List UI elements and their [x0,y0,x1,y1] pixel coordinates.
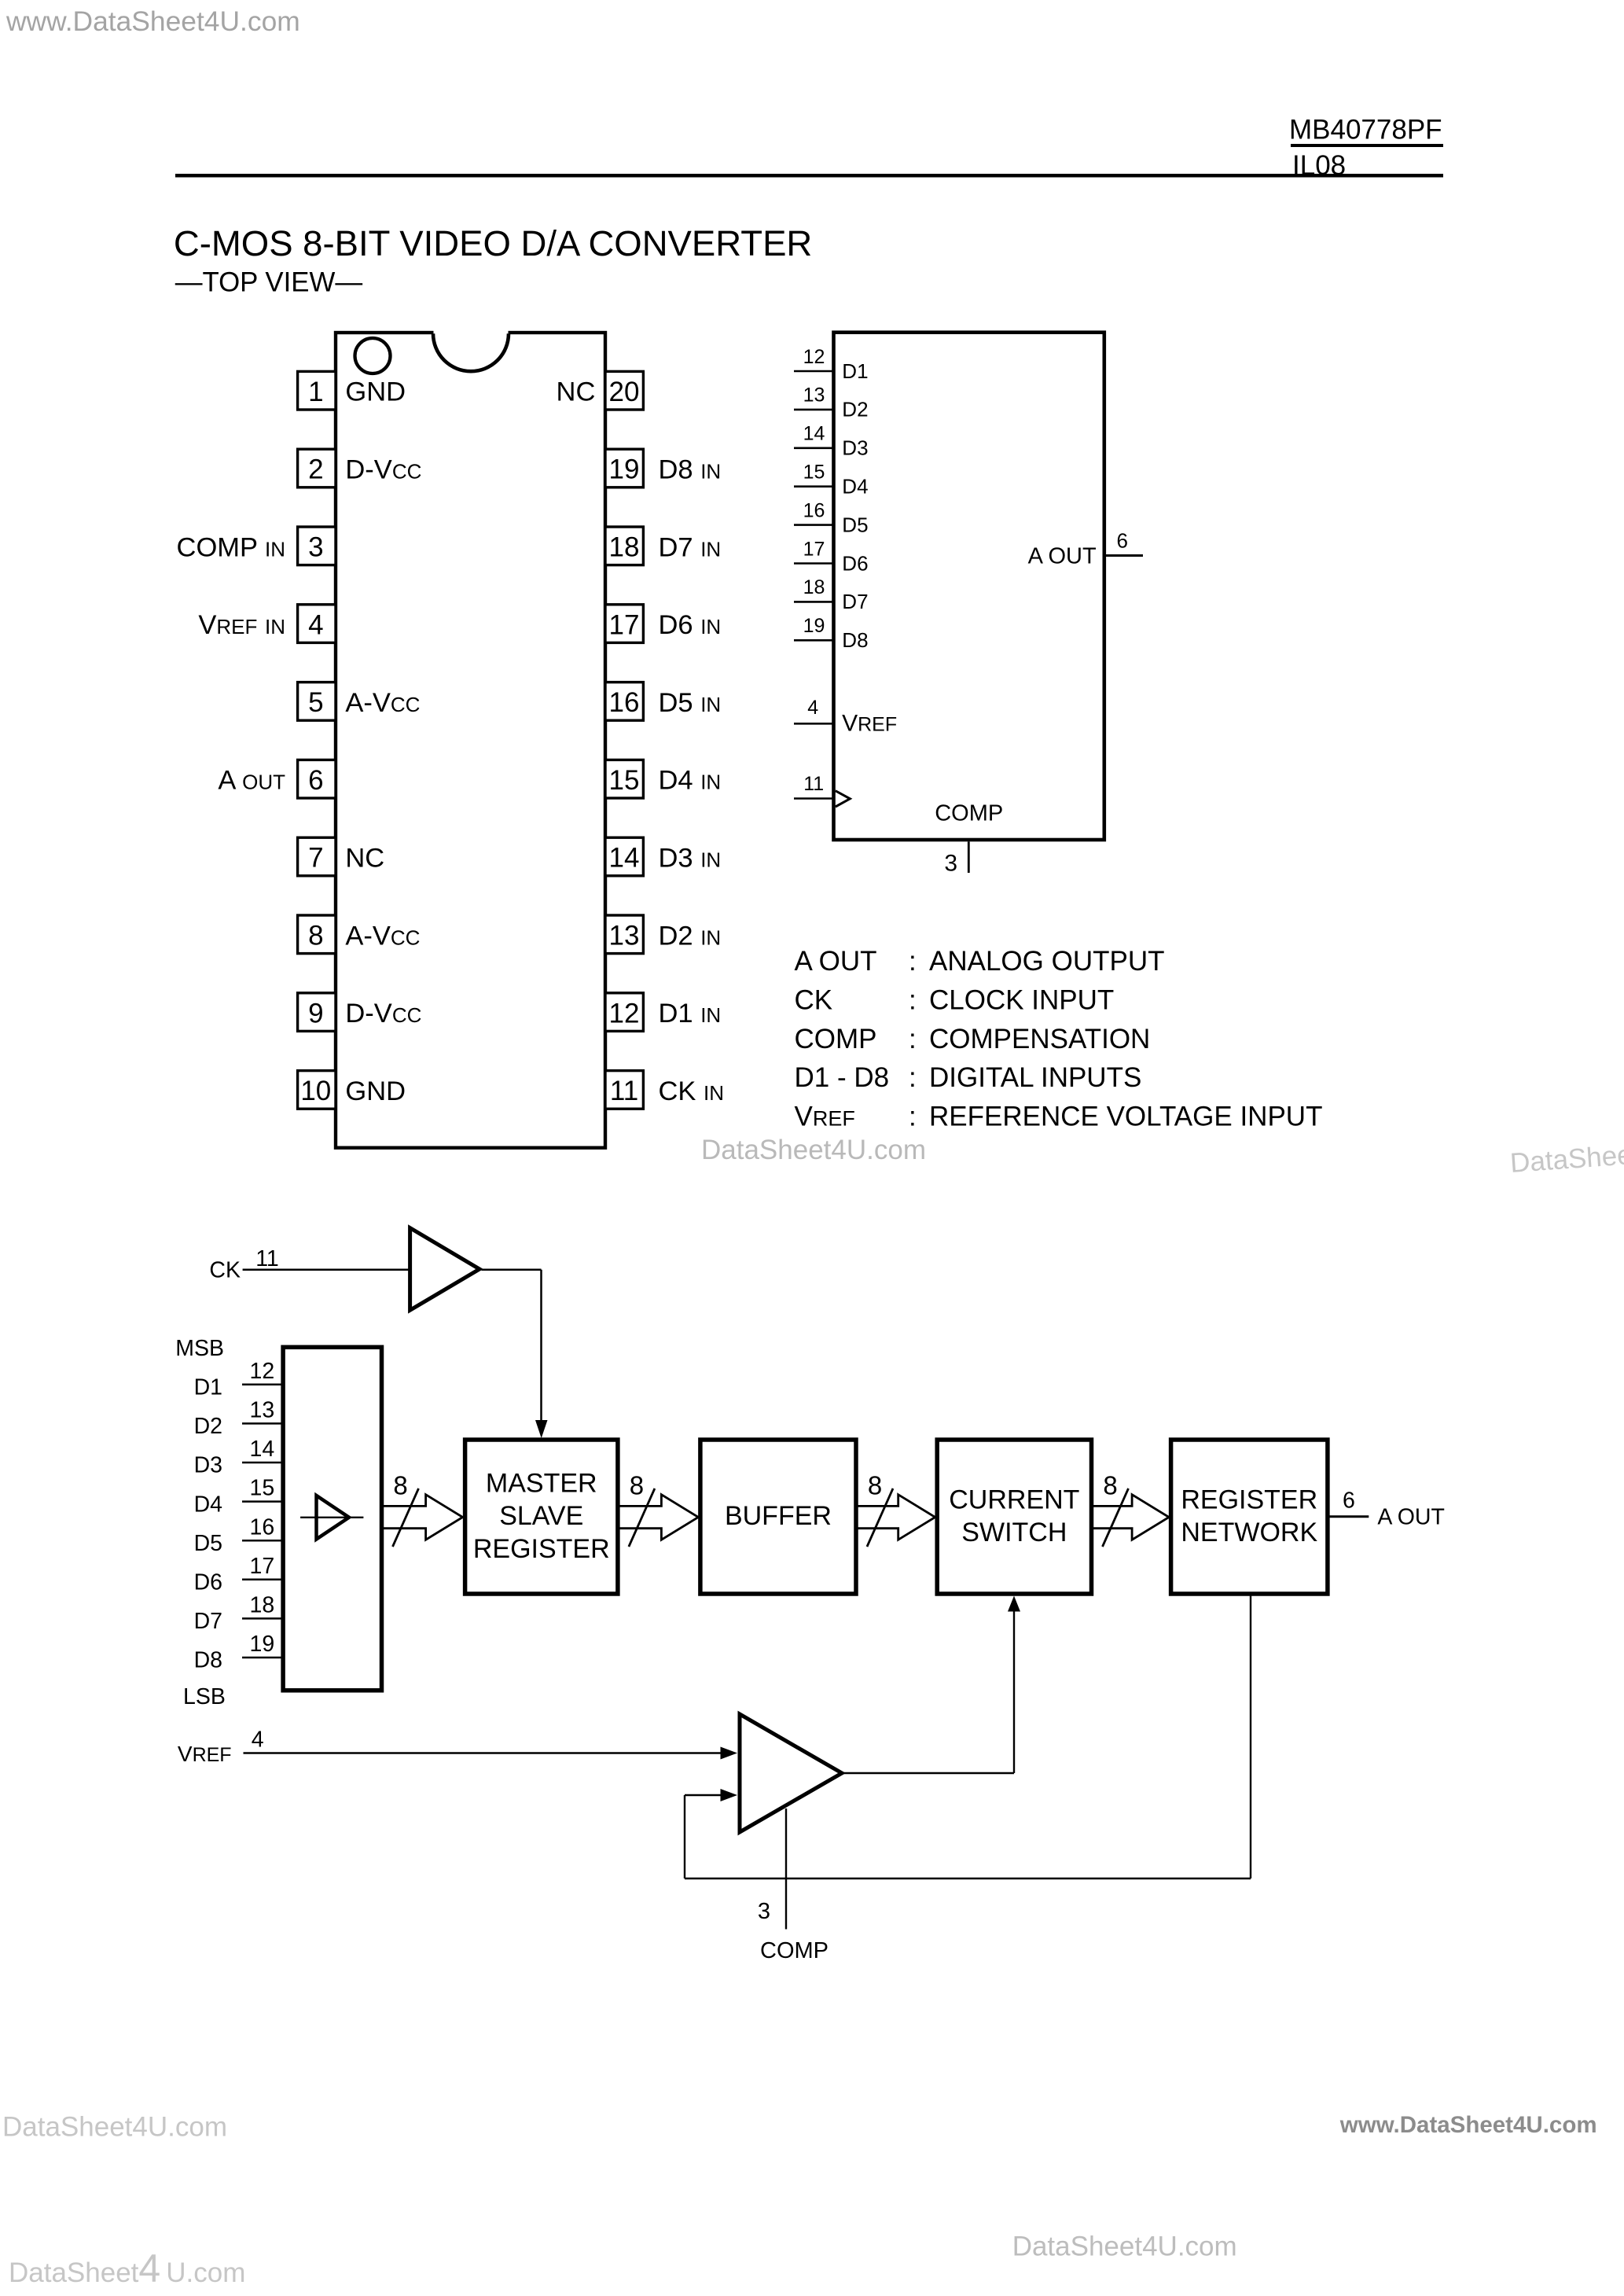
svg-text:1: 1 [308,377,323,407]
svg-text:ANALOG OUTPUT: ANALOG OUTPUT [929,946,1164,977]
svg-text:11: 11 [610,1076,638,1106]
svg-text:COMPENSATION: COMPENSATION [929,1024,1150,1054]
svg-text:LSB: LSB [183,1684,226,1709]
svg-text:13: 13 [250,1398,275,1423]
svg-text:D1: D1 [842,359,868,383]
svg-text:NETWORK: NETWORK [1181,1518,1317,1547]
svg-text:CK: CK [209,1257,241,1282]
svg-text:SWITCH: SWITCH [961,1518,1067,1547]
svg-text:10: 10 [300,1076,331,1106]
svg-text:D4: D4 [194,1492,223,1517]
svg-text:CK IN: CK IN [659,1076,725,1106]
svg-text:3: 3 [308,532,323,563]
svg-text:A OUT: A OUT [218,766,285,796]
svg-text:13: 13 [609,921,640,951]
svg-text:14: 14 [250,1437,275,1462]
svg-text:4: 4 [308,609,323,640]
svg-text:—TOP VIEW—: —TOP VIEW— [175,267,363,298]
svg-text:8: 8 [868,1471,882,1500]
svg-text:VREF IN: VREF IN [198,610,285,640]
svg-text:A-VCC: A-VCC [345,921,420,951]
svg-text:DataSheet4U.com: DataSheet4U.com [1509,1132,1624,1179]
svg-text:D2 IN: D2 IN [659,921,722,951]
svg-text:3: 3 [944,850,957,876]
svg-text:D2: D2 [194,1414,222,1439]
svg-text:19: 19 [803,615,825,637]
svg-text:D4: D4 [842,475,868,499]
svg-text:15: 15 [803,462,825,484]
svg-text:D1 IN: D1 IN [659,999,722,1028]
svg-text:VREF: VREF [178,1742,232,1766]
svg-text:GND: GND [345,1076,406,1106]
svg-text:A-VCC: A-VCC [345,688,420,718]
svg-text:19: 19 [250,1632,275,1657]
svg-text:7: 7 [308,843,323,874]
svg-text:5: 5 [308,687,323,718]
svg-text:COMP: COMP [795,1024,877,1054]
svg-text:16: 16 [250,1514,275,1540]
svg-text:MSB: MSB [175,1336,224,1361]
svg-text:18: 18 [250,1593,275,1618]
svg-text:16: 16 [803,499,825,521]
svg-text:NC: NC [557,377,596,407]
svg-text:www.DataSheet4U.com: www.DataSheet4U.com [1339,2112,1597,2138]
svg-text:GND: GND [345,377,406,407]
svg-text:D8 IN: D8 IN [659,455,722,485]
svg-text:8: 8 [308,921,323,951]
svg-text:17: 17 [609,609,640,640]
svg-text::: : [909,1024,917,1054]
svg-text:COMP IN: COMP IN [177,532,285,562]
svg-text:D5: D5 [194,1531,222,1556]
svg-text:17: 17 [803,538,825,560]
svg-text:DIGITAL INPUTS: DIGITAL INPUTS [929,1062,1141,1093]
svg-text:8: 8 [393,1471,407,1500]
svg-text:D-VCC: D-VCC [345,455,421,485]
svg-text:13: 13 [803,385,825,407]
svg-text:D3 IN: D3 IN [659,844,722,874]
svg-text:D8: D8 [194,1648,222,1673]
svg-text:D8: D8 [842,628,868,652]
svg-text:D6: D6 [842,551,868,575]
svg-text:REGISTER: REGISTER [1181,1485,1317,1514]
svg-text:8: 8 [630,1471,644,1500]
svg-text:VREF: VREF [795,1102,855,1132]
svg-text:2: 2 [308,454,323,485]
svg-text:D5: D5 [842,513,868,536]
svg-text:BUFFER: BUFFER [725,1501,832,1531]
svg-text:D5 IN: D5 IN [659,688,722,718]
svg-text:D7: D7 [842,590,868,613]
svg-text:A OUT: A OUT [795,946,877,977]
svg-text:17: 17 [250,1554,275,1579]
svg-text:D3: D3 [194,1453,222,1478]
svg-text:18: 18 [803,576,825,598]
svg-text:D6: D6 [194,1570,222,1595]
svg-text:DataSheet4 U.com: DataSheet4 U.com [9,2246,245,2290]
svg-text:12: 12 [250,1359,275,1384]
svg-text:15: 15 [609,765,640,796]
svg-text:6: 6 [308,765,323,796]
svg-text:VREF: VREF [842,711,897,737]
svg-text:9: 9 [308,998,323,1028]
svg-text:11: 11 [803,773,824,795]
svg-text:11: 11 [255,1246,279,1271]
svg-text::: : [909,984,917,1015]
svg-text:D7: D7 [194,1609,222,1634]
svg-text:15: 15 [250,1476,275,1501]
svg-text:18: 18 [609,532,640,563]
svg-text:COMP: COMP [935,801,1003,826]
svg-text:A OUT: A OUT [1377,1504,1445,1529]
svg-text:D1 - D8: D1 - D8 [795,1062,890,1093]
svg-text:MB40778PF: MB40778PF [1289,115,1442,145]
svg-text:8: 8 [1103,1471,1117,1500]
svg-text:CK: CK [795,984,833,1015]
svg-text:D3: D3 [842,436,868,460]
svg-text:DataSheet4U.com: DataSheet4U.com [1012,2232,1237,2262]
svg-text:SLAVE: SLAVE [499,1501,583,1531]
svg-text::: : [909,1102,917,1132]
svg-text:D6 IN: D6 IN [659,610,722,640]
svg-text:16: 16 [609,687,640,718]
svg-text::: : [909,946,917,977]
svg-text::: : [909,1062,917,1093]
svg-text:COMP: COMP [760,1938,829,1963]
svg-text:4: 4 [807,697,818,719]
svg-text:D-VCC: D-VCC [345,999,421,1028]
svg-text:CURRENT: CURRENT [949,1485,1079,1514]
svg-text:REFERENCE VOLTAGE INPUT: REFERENCE VOLTAGE INPUT [929,1102,1322,1132]
svg-text:D7 IN: D7 IN [659,532,722,562]
svg-text:D1: D1 [194,1375,222,1400]
svg-text:MASTER: MASTER [486,1469,597,1499]
svg-text:A OUT: A OUT [1028,543,1097,568]
svg-text:D2: D2 [842,398,868,421]
svg-text:12: 12 [609,998,640,1028]
svg-text:6: 6 [1343,1488,1355,1514]
svg-text:DataSheet4U.com: DataSheet4U.com [701,1135,926,1165]
svg-text:NC: NC [345,844,384,874]
svg-text:DataSheet4U.com: DataSheet4U.com [2,2112,227,2143]
svg-text:CLOCK INPUT: CLOCK INPUT [929,984,1114,1015]
svg-text:14: 14 [609,843,640,874]
svg-text:20: 20 [609,377,640,407]
svg-text:www.DataSheet4U.com: www.DataSheet4U.com [6,6,300,37]
svg-text:14: 14 [803,423,825,445]
svg-text:19: 19 [609,454,640,485]
svg-text:REGISTER: REGISTER [473,1534,610,1564]
svg-text:3: 3 [758,1899,770,1924]
svg-text:12: 12 [803,346,825,368]
svg-text:D4 IN: D4 IN [659,766,722,796]
svg-text:6: 6 [1117,529,1128,553]
svg-text:4: 4 [252,1728,264,1753]
svg-text:C-MOS 8-BIT VIDEO D/A CONVERTE: C-MOS 8-BIT VIDEO D/A CONVERTER [174,223,812,263]
